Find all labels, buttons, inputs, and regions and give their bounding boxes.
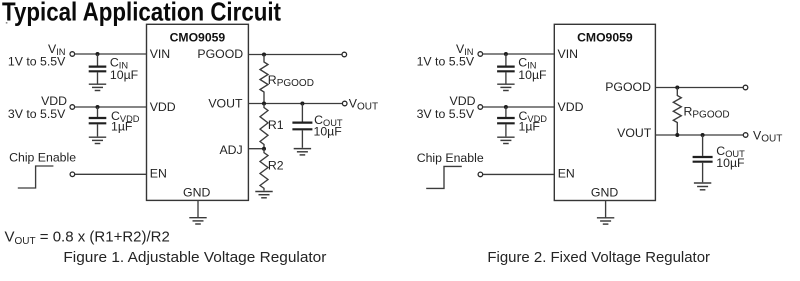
svg-text:1µF: 1µF [519, 120, 541, 134]
junction VDD/CVDD [96, 105, 100, 109]
svg-text:VDD: VDD [558, 100, 584, 114]
svg-text:10µF: 10µF [518, 68, 547, 82]
svg-text:3V to 5.5V: 3V to 5.5V [417, 107, 475, 121]
junction VDD/CVDD [504, 105, 508, 109]
wire PGOOD [655, 87, 743, 89]
ground under IC [189, 218, 206, 224]
wire ADJ [248, 148, 264, 150]
junction VOUT/RPGOOD [675, 133, 679, 137]
svg-text:VDD: VDD [450, 94, 476, 108]
svg-text:VIN: VIN [558, 47, 579, 61]
svg-text:3V to 5.5V: 3V to 5.5V [8, 107, 66, 121]
capacitor C_IN [497, 54, 515, 84]
svg-text:Figure 1. Adjustable Voltage R: Figure 1. Adjustable Voltage Regulator [63, 249, 326, 266]
svg-text:VOUT: VOUT [617, 126, 652, 140]
resistor R2 [260, 149, 268, 191]
terminal VOUT [342, 101, 347, 106]
junction VOUT/COUT [300, 102, 304, 106]
svg-text:RPGOOD: RPGOOD [268, 73, 314, 89]
terminal VDD [478, 105, 483, 110]
terminal EN [478, 172, 483, 177]
ground under C_VDD [89, 137, 106, 143]
svg-text:10µF: 10µF [314, 124, 343, 138]
op-amp U2 box CMO9059 [554, 24, 655, 200]
svg-text:RPGOOD: RPGOOD [684, 104, 730, 120]
resistor R_PGOOD [260, 55, 268, 104]
svg-text:VOUT: VOUT [349, 96, 378, 112]
wire EN [483, 173, 555, 175]
capacitor C_OUT [693, 135, 713, 182]
ground under IC [597, 218, 614, 224]
svg-text:1V to 5.5V: 1V to 5.5V [417, 55, 475, 69]
svg-text:Figure 2. Fixed Voltage Regula: Figure 2. Fixed Voltage Regulator [487, 249, 710, 266]
svg-text:ADJ: ADJ [219, 143, 242, 157]
terminal VDD [70, 105, 75, 110]
svg-text:Typical Application Circuit: Typical Application Circuit [2, 0, 281, 27]
junction PGOOD/RPGOOD [262, 53, 266, 57]
svg-text:VOUT: VOUT [753, 128, 782, 144]
resistor R1 [260, 104, 268, 149]
svg-text:R2: R2 [268, 158, 284, 172]
svg-text:GND: GND [183, 186, 210, 200]
svg-text:10µF: 10µF [716, 156, 745, 170]
wire VIN [75, 53, 147, 55]
svg-text:GND: GND [591, 186, 618, 200]
junction VOUT/COUT [701, 133, 705, 137]
ground under C_IN [89, 84, 106, 90]
svg-text:R1: R1 [268, 118, 284, 132]
capacitor C_VDD [89, 107, 107, 136]
terminal PGOOD [342, 52, 347, 57]
terminal PGOOD [743, 85, 748, 90]
wire VDD [75, 106, 147, 108]
wire PGOOD [248, 54, 342, 56]
ground under C_VDD [497, 137, 514, 143]
junction VIN/CIN [96, 52, 100, 56]
svg-text:PGOOD: PGOOD [197, 47, 243, 61]
junction VIN/CIN [504, 52, 508, 56]
terminal VOUT [743, 133, 748, 138]
terminal VIN [70, 52, 75, 57]
ground under R2 [255, 192, 272, 198]
capacitor C_IN [89, 54, 107, 84]
terminal EN [70, 172, 75, 177]
capacitor C_VDD [497, 107, 515, 136]
svg-text:Chip Enable: Chip Enable [9, 151, 76, 165]
svg-text:CMO9059: CMO9059 [170, 30, 226, 44]
svg-text:VIN: VIN [150, 47, 171, 61]
junction VOUT/R1 [262, 102, 266, 106]
svg-text:EN: EN [150, 167, 167, 181]
svg-text:1V to 5.5V: 1V to 5.5V [8, 55, 66, 69]
stray dot mark [6, 22, 8, 24]
ground under C_OUT [694, 183, 711, 190]
terminal VIN [478, 52, 483, 57]
svg-text:Chip Enable: Chip Enable [417, 151, 484, 165]
junction ADJ [262, 147, 266, 151]
wire VIN [483, 53, 555, 55]
svg-text:1µF: 1µF [111, 120, 133, 134]
wire VOUT [655, 134, 743, 136]
svg-text:CMO9059: CMO9059 [577, 30, 633, 44]
wire VDD [483, 106, 555, 108]
wire VOUT [248, 103, 342, 105]
svg-text:VOUT = 0.8 x (R1+R2)/R2: VOUT = 0.8 x (R1+R2)/R2 [5, 228, 170, 247]
svg-text:10µF: 10µF [110, 68, 139, 82]
chip enable step waveform [18, 166, 54, 188]
resistor R_PGOOD [673, 88, 681, 136]
wire GND stub [605, 201, 607, 218]
svg-text:VOUT: VOUT [208, 97, 243, 111]
svg-text:EN: EN [558, 167, 575, 181]
ground under C_IN [497, 84, 514, 90]
chip enable step waveform [426, 166, 462, 188]
svg-text:VDD: VDD [150, 100, 176, 114]
wire GND stub [197, 200, 199, 217]
svg-text:VDD: VDD [41, 94, 67, 108]
ground under C_OUT [294, 149, 311, 155]
op-amp U1 box CMO9059 [147, 24, 249, 200]
junction PGOOD/RPGOOD [675, 86, 679, 90]
svg-text:PGOOD: PGOOD [605, 80, 651, 94]
wire EN [75, 173, 147, 175]
capacitor C_OUT [292, 104, 312, 148]
